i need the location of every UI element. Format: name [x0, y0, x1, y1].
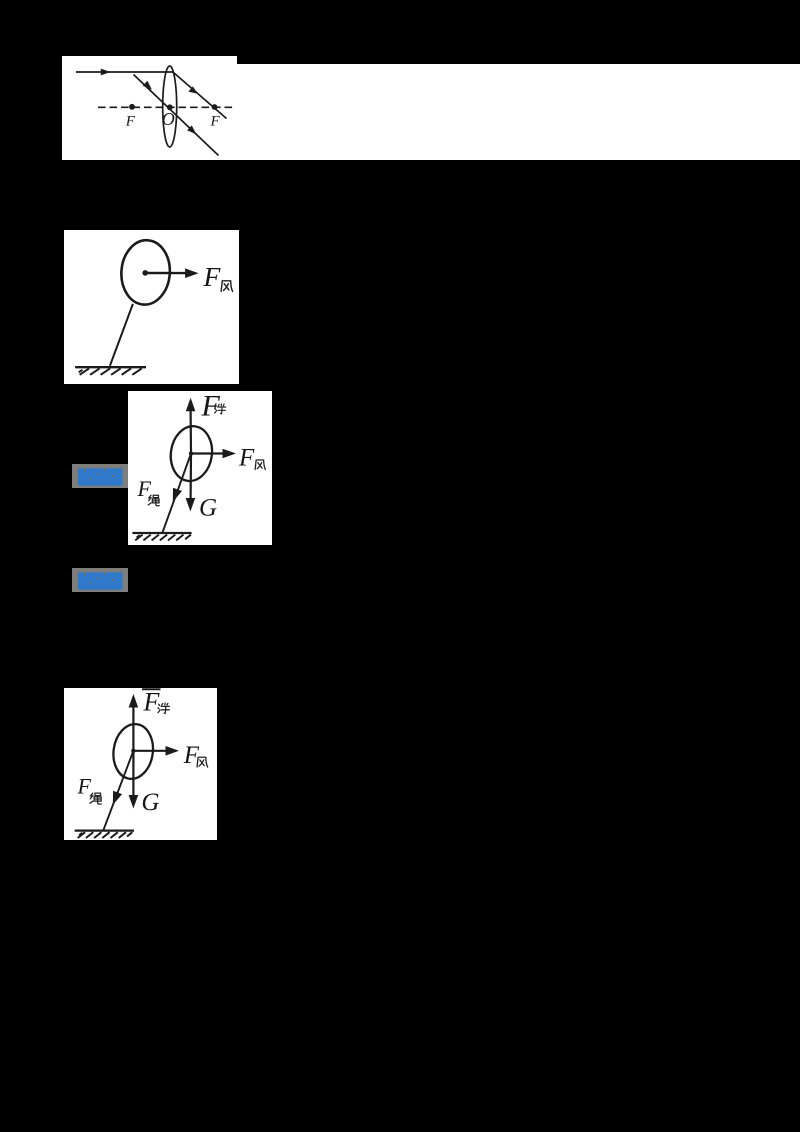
wind arrowhead	[166, 746, 180, 756]
svg-text:G: G	[141, 789, 159, 816]
wind arrowhead	[223, 449, 237, 459]
focus dot right F	[212, 104, 218, 110]
wind force arrowhead	[185, 268, 199, 278]
string to ground	[162, 454, 191, 534]
ground hatching	[135, 535, 191, 541]
string from balloon to ground	[110, 304, 133, 366]
ground hatching	[79, 368, 142, 374]
hyperlink label 2 (video link)	[72, 568, 128, 592]
buoyancy arrowhead	[129, 694, 139, 708]
weight arrow line	[190, 454, 193, 500]
centre dot	[142, 270, 148, 276]
string to ground	[103, 751, 133, 831]
ground hatching	[78, 832, 133, 838]
rope tension arrowhead	[173, 488, 182, 502]
principal axis (dashed)	[98, 106, 234, 108]
focus dot left F	[129, 104, 135, 110]
buoyancy arrow line	[190, 410, 193, 454]
svg-text:F: F	[125, 114, 136, 130]
balloon ellipse	[167, 424, 215, 484]
buoyancy arrow line	[132, 706, 134, 751]
ground line	[132, 532, 191, 534]
arrowhead 2 on oblique ray	[187, 125, 196, 134]
svg-text:O: O	[162, 109, 175, 129]
incident ray (horizontal)	[76, 71, 173, 73]
white band right of lens figure	[237, 64, 800, 161]
subscript glyph 风	[221, 281, 233, 292]
subscript glyph 风	[255, 460, 265, 470]
wind arrow line	[133, 750, 168, 752]
svg-text:F: F	[210, 114, 221, 130]
svg-text:G: G	[199, 495, 217, 522]
centre dot	[131, 749, 135, 753]
subscript glyph 绳	[148, 495, 159, 506]
weight arrowhead	[129, 795, 139, 809]
refracted ray (through right focus F)	[173, 72, 227, 119]
buoyancy arrowhead	[186, 398, 196, 412]
ground line	[75, 366, 146, 368]
svg-text:F: F	[77, 774, 92, 799]
clipped stroke artifact at image top edge	[142, 688, 161, 690]
figure 4: balloon force diagram (left position)	[64, 688, 217, 840]
arrowhead on refracted ray	[188, 86, 197, 93]
arrowhead on horizontal ray	[101, 69, 111, 76]
figure 3: balloon force diagram (right position)	[128, 391, 272, 545]
ground line	[75, 829, 134, 831]
subscript glyph 浮	[215, 404, 226, 414]
subscript glyph 风	[197, 757, 208, 767]
weight arrowhead	[186, 498, 196, 512]
balloon ellipse	[110, 722, 156, 782]
rope tension arrowhead	[113, 791, 122, 805]
subscript glyph 绳	[90, 793, 101, 804]
figure 1: converging lens ray diagram	[62, 56, 237, 160]
arrowhead 1 on oblique ray	[143, 81, 152, 90]
wind force arrow line	[145, 272, 186, 275]
wind arrow line	[191, 452, 225, 454]
lens (thin ellipse)	[163, 66, 177, 147]
subscript glyph 浮	[158, 703, 170, 713]
svg-text:F: F	[203, 261, 222, 292]
svg-text:F: F	[238, 445, 255, 472]
balloon ellipse	[119, 239, 172, 307]
weight arrow line	[132, 751, 134, 797]
figure 2: balloon pulled by wind, F wind arrow	[64, 230, 239, 384]
incident ray 2 (oblique through O)	[134, 75, 219, 156]
hyperlink label 1 (video link)	[72, 464, 128, 488]
centre dot	[189, 451, 193, 455]
optical centre dot O	[167, 104, 173, 110]
